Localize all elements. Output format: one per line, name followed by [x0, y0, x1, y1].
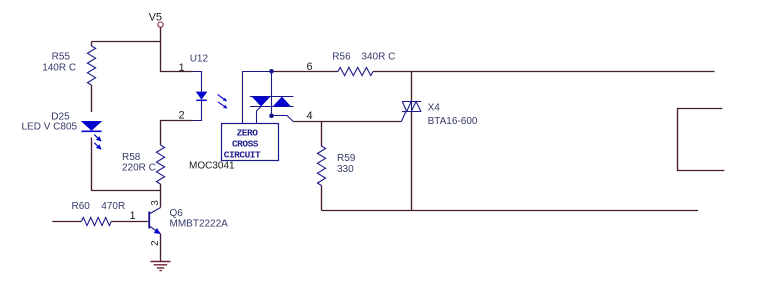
svg-text:140R C: 140R C	[42, 62, 76, 73]
svg-text:6: 6	[307, 61, 313, 73]
svg-text:220R C: 220R C	[122, 162, 156, 173]
svg-text:ZERO: ZERO	[237, 128, 259, 139]
svg-text:R55: R55	[52, 51, 71, 62]
svg-text:LED V C805: LED V C805	[22, 122, 78, 133]
svg-text:U12: U12	[190, 53, 209, 64]
svg-text:2: 2	[179, 110, 185, 122]
svg-text:Q6: Q6	[170, 208, 184, 219]
svg-text:330: 330	[337, 164, 354, 175]
svg-text:MOC3041: MOC3041	[189, 161, 235, 172]
svg-text:4: 4	[307, 110, 313, 122]
svg-text:X4: X4	[428, 102, 441, 113]
svg-text:2: 2	[150, 240, 161, 246]
svg-text:340R C: 340R C	[361, 51, 395, 62]
svg-text:BTA16-600: BTA16-600	[428, 116, 478, 127]
svg-text:3: 3	[150, 200, 161, 206]
svg-text:1: 1	[130, 210, 136, 222]
svg-text:470R: 470R	[101, 201, 125, 212]
svg-text:R60: R60	[72, 201, 91, 212]
svg-text:V5: V5	[149, 12, 162, 24]
svg-text:R59: R59	[337, 153, 356, 164]
svg-text:R56: R56	[332, 51, 351, 62]
svg-text:CROSS: CROSS	[232, 139, 259, 150]
svg-text:CIRCUIT: CIRCUIT	[224, 149, 261, 160]
svg-text:1: 1	[179, 62, 185, 74]
svg-text:MMBT2222A: MMBT2222A	[170, 219, 229, 230]
